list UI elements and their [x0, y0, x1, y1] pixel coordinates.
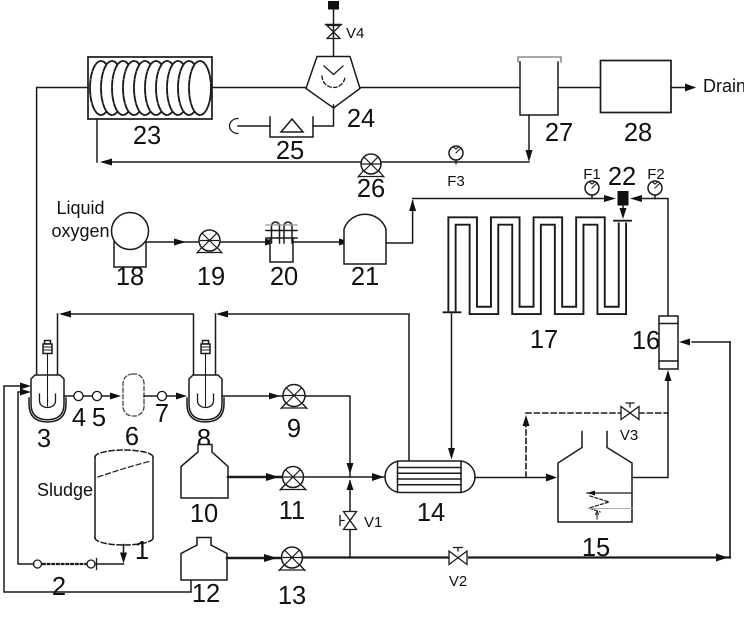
svg-text:15: 15	[582, 534, 610, 562]
wire 11 to 14 with junction	[304, 473, 386, 481]
wire 18 to 19	[146, 239, 199, 246]
svg-text:1: 1	[135, 537, 149, 565]
ball valve 7	[155, 391, 169, 428]
svg-text:25: 25	[276, 137, 304, 165]
ball valve 5	[92, 391, 106, 432]
ball valve 4	[72, 391, 86, 432]
svg-text:V4: V4	[346, 25, 364, 42]
svg-text:20: 20	[270, 263, 298, 291]
filter column 6	[123, 374, 144, 451]
wire 23 to 24	[212, 87, 306, 89]
sight tray 25	[230, 117, 314, 165]
wire 2 to reactor 3 lower inlet	[18, 389, 34, 565]
svg-text:Liquid: Liquid	[56, 198, 104, 218]
wire F2 side into 22	[630, 195, 668, 316]
wire 23 left riser to reactor 3 top	[37, 88, 88, 376]
sludge tank 1	[37, 450, 153, 565]
valve V4	[326, 25, 365, 43]
svg-text:17: 17	[530, 326, 558, 354]
shell and tube exchanger 14	[385, 461, 475, 527]
stirred reactor 3	[29, 341, 66, 454]
svg-text:10: 10	[190, 500, 218, 528]
svg-text:Drain: Drain	[703, 76, 744, 96]
wire 15 outlet up to 16 bottom	[632, 370, 672, 478]
mixing tee 22	[608, 163, 636, 206]
oxygen header wire to 22	[413, 195, 616, 202]
svg-text:16: 16	[632, 327, 660, 355]
dashed bypass wire with arrow	[523, 413, 669, 477]
svg-text:18: 18	[116, 263, 144, 291]
wire 21 to oxygen header	[386, 200, 416, 244]
wire 3 outlet to valve 4	[64, 395, 74, 397]
wire riser into 16 right side	[679, 339, 730, 346]
svg-text:24: 24	[347, 105, 375, 133]
valve V1	[340, 512, 382, 532]
wire 28 to drain	[671, 76, 744, 96]
wire 8 to pump 9	[222, 393, 283, 400]
wire 9 down to junction	[305, 396, 354, 477]
svg-text:2: 2	[52, 573, 66, 601]
svg-text:5: 5	[92, 404, 106, 432]
svg-text:V1: V1	[364, 514, 382, 531]
wire 19 to 20	[220, 239, 277, 246]
svg-text:3: 3	[37, 425, 51, 453]
pump 19	[197, 230, 225, 291]
svg-text:12: 12	[192, 580, 220, 608]
valve V3	[620, 403, 639, 444]
gas analyzer 28	[601, 61, 672, 148]
svg-text:Sludge: Sludge	[37, 480, 93, 500]
wire gas return 8 to reactor 3	[58, 311, 194, 376]
wire 12 bottom loop to reactor 3 upper inlet	[4, 383, 191, 593]
wire 27 bottom down to return line	[526, 115, 533, 162]
wire tank 1 outlet down	[120, 545, 127, 564]
pump 11	[279, 467, 306, 526]
svg-text:13: 13	[278, 582, 306, 610]
wire square to 24 through V4	[333, 10, 335, 57]
black square feed port above V4	[328, 1, 339, 10]
wire 27 to 28	[558, 87, 601, 89]
coil heat exchanger 23	[88, 57, 212, 150]
svg-text:F3: F3	[447, 173, 465, 190]
wire 20 to 21	[293, 239, 351, 246]
wire 10 to pump 11	[228, 473, 283, 481]
condensate trap 27	[518, 57, 573, 147]
phase separator 15	[558, 432, 632, 563]
cyclone separator 24	[306, 57, 375, 134]
svg-text:4: 4	[72, 404, 86, 432]
stirred reactor 8	[187, 341, 224, 454]
wire 24 to 27	[360, 87, 520, 89]
wire 4 to 5	[83, 395, 93, 397]
wire 14 to 15	[475, 474, 557, 482]
flow gauge F1	[583, 166, 601, 199]
wire 6 to 7	[144, 395, 158, 397]
wire 24 bottom to tray 25	[313, 105, 334, 126]
slurry hopper 12	[181, 538, 227, 609]
svg-text:27: 27	[545, 119, 573, 147]
flow gauge F2	[647, 166, 665, 199]
svg-text:22: 22	[608, 163, 636, 191]
return wire y162 to 23 riser	[97, 119, 529, 166]
wire coil 17 outlet down to 14	[448, 314, 455, 460]
wire V1 branch up to junction	[347, 480, 354, 558]
svg-text:V2: V2	[449, 573, 467, 590]
svg-text:11: 11	[279, 497, 305, 525]
svg-text:14: 14	[417, 499, 445, 527]
svg-text:23: 23	[133, 122, 161, 150]
svg-text:F1: F1	[583, 166, 601, 183]
metering pump 2	[34, 559, 124, 602]
pump 26	[357, 154, 385, 203]
wire gas return 14 to reactor 8	[216, 311, 410, 462]
svg-text:7: 7	[155, 400, 169, 428]
svg-text:9: 9	[287, 415, 301, 443]
wire 7 to reactor 8	[167, 393, 188, 400]
serpentine reactor coil 17	[444, 221, 632, 354]
svg-text:6: 6	[125, 423, 139, 451]
svg-text:V3: V3	[620, 427, 638, 444]
svg-text:oxygen: oxygen	[51, 221, 109, 241]
pump 13	[278, 547, 306, 610]
liquid oxygen dewar 18	[112, 213, 149, 292]
valve V2	[449, 548, 467, 591]
svg-text:21: 21	[351, 263, 379, 291]
svg-text:28: 28	[624, 119, 652, 147]
label liquid oxygen	[51, 198, 109, 241]
wire 12 to pump 13	[227, 554, 282, 562]
wire 22 down to coil 17 inlet	[620, 206, 627, 220]
humidifier 20	[266, 222, 298, 291]
wire 5 to 6	[102, 393, 122, 400]
rotameter 16	[632, 316, 678, 369]
svg-text:F2: F2	[647, 166, 665, 183]
slurry hopper 10	[181, 445, 228, 529]
svg-text:19: 19	[197, 263, 225, 291]
svg-text:26: 26	[357, 175, 385, 203]
bottom feed wire 13 to riser with valve V2	[303, 342, 731, 562]
pump 9	[281, 385, 307, 444]
buffer vessel 21	[344, 214, 386, 291]
flow gauge F3	[447, 146, 465, 190]
